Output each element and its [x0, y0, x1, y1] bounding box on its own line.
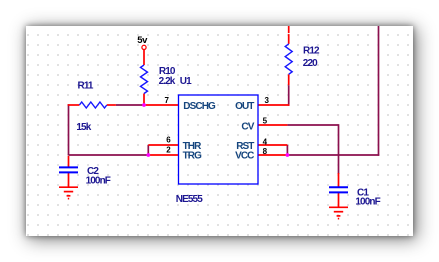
junction node A (R10/R11/pin7)	[142, 103, 146, 107]
wire: C2 top pin	[68, 156, 70, 168]
resistor R12	[285, 44, 292, 74]
wire: pin 8 VCC stub	[258, 154, 287, 156]
wire: pin 5 CV stub	[258, 124, 287, 126]
wire: R10 bottom to junction A	[143, 94, 145, 106]
wire: top edge to R12 lower	[288, 34, 290, 44]
svg-text:100nF: 100nF	[86, 175, 111, 186]
svg-text:OUT: OUT	[235, 101, 254, 112]
svg-text:5v: 5v	[137, 35, 148, 46]
wire: R11 left pin	[68, 104, 80, 106]
wire: pin 3 OUT stub	[258, 104, 290, 106]
wire: C1 bottom pin to ground	[338, 192, 340, 207]
wire: CV horizontal	[287, 124, 338, 126]
svg-text:DSCHG: DSCHG	[183, 101, 216, 112]
wire: top edge to R12 upper	[288, 26, 290, 33]
wire: pin 4 RST stub	[258, 144, 287, 146]
wire: VCC net horizontal	[287, 154, 379, 156]
svg-text:8: 8	[263, 147, 268, 156]
wire: R11 right to junction A	[116, 104, 144, 106]
ground (C1)	[329, 207, 348, 218]
wire: pin 6 THR stub	[148, 144, 178, 146]
svg-text:6: 6	[166, 135, 171, 144]
svg-text:R11: R11	[78, 80, 94, 91]
resistor R10	[141, 65, 148, 93]
svg-text:15k: 15k	[76, 122, 91, 133]
wire: pin 2 TRG stub	[148, 154, 178, 156]
power port 5v	[142, 45, 146, 49]
wire: 5v stem to R10	[143, 50, 145, 65]
wire: R11 right pin	[107, 104, 116, 106]
svg-text:CV: CV	[241, 121, 254, 132]
wire: R11 left vertical to TRG net	[68, 104, 70, 155]
resistor R11	[79, 102, 106, 108]
svg-text:3: 3	[265, 96, 270, 105]
wire: C2 bottom pin to ground	[68, 172, 70, 187]
wire: right rail vertical	[378, 26, 380, 156]
svg-text:NE555: NE555	[176, 194, 203, 205]
svg-text:R12: R12	[303, 46, 320, 57]
junction node RST/VCC	[286, 153, 290, 157]
schematic page	[26, 26, 413, 236]
svg-text:2.2k: 2.2k	[159, 76, 176, 87]
wire: C1 top pin	[338, 173, 340, 187]
IC U1 NE555 body	[179, 95, 259, 184]
wire: pin 7 DSCHG	[144, 104, 179, 106]
junction node TRG/THR	[146, 153, 150, 157]
svg-text:220: 220	[303, 58, 318, 69]
svg-text:100nF: 100nF	[355, 197, 380, 208]
wire: TRG net horizontal	[69, 154, 149, 156]
wire: THR to TRG jog	[147, 145, 149, 155]
wire: OUT vertical to R12	[288, 85, 290, 106]
wire: CV down to C1	[338, 124, 340, 174]
svg-text:7: 7	[165, 96, 170, 105]
wire: RST to VCC jog	[286, 145, 288, 155]
svg-text:VCC: VCC	[235, 150, 254, 161]
svg-text:2: 2	[166, 146, 171, 155]
ground (C2)	[59, 187, 78, 198]
svg-text:5: 5	[263, 117, 268, 126]
capacitor C2	[59, 166, 78, 168]
svg-text:4: 4	[263, 137, 268, 146]
svg-text:U1: U1	[180, 76, 192, 87]
svg-text:TRG: TRG	[183, 150, 203, 161]
capacitor C1	[329, 186, 348, 188]
wire: R12 bottom pin	[288, 74, 290, 85]
